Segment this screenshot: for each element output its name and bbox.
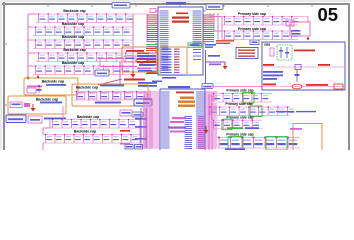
group1 label — [42, 80, 64, 84]
primary bank P2 label — [225, 102, 252, 106]
blue box with red rows — [236, 48, 258, 59]
wire row5 to group1 — [37, 75, 39, 79]
svg-text:Primary side cap: Primary side cap — [238, 12, 266, 16]
U2 left bus wires — [144, 90, 150, 149]
VR5 diodes — [279, 47, 289, 58]
primary cap bank P3 — [211, 119, 262, 128]
VR5 panel — [262, 42, 345, 90]
border zone ticks — [5, 5, 313, 106]
net label right of U1 — [205, 44, 216, 48]
backside cap bank row 5 label — [62, 61, 84, 65]
IC U1 part value text — [172, 13, 189, 23]
group3 net center — [95, 102, 121, 104]
U2 part value text — [176, 92, 195, 107]
P3 green box — [222, 119, 232, 130]
U2 right pin names — [196, 92, 205, 149]
IC U1 right pin names — [193, 11, 206, 47]
wire bank6-7 left — [43, 120, 50, 151]
U2 inner pin column — [185, 116, 205, 149]
svg-text:Backside cap: Backside cap — [36, 98, 58, 102]
wire rail to connector — [298, 17, 309, 40]
red note below box — [124, 79, 145, 81]
backside cap bank row 3 label — [62, 35, 84, 39]
group3 net right — [100, 85, 124, 87]
red ellipse callout — [136, 58, 148, 63]
P1 green box — [243, 93, 254, 104]
svg-text:Backside cap: Backside cap — [42, 80, 64, 84]
backside cap bank row 2 label — [62, 22, 84, 26]
IC U2 refdes label — [168, 86, 190, 88]
group1 parts — [27, 85, 42, 93]
red note in box — [126, 50, 144, 52]
VR5 wire 1 — [263, 64, 344, 70]
VR5 red note — [294, 50, 315, 52]
wire into box — [100, 59, 137, 67]
U1 orange box pin rows — [162, 49, 180, 74]
wire U1 to south — [205, 50, 207, 88]
hierarchical block tab A — [112, 3, 130, 9]
primary bank row 2 label — [238, 27, 266, 31]
U2 purple text — [168, 127, 186, 133]
wire bank right join — [139, 120, 141, 144]
svg-text:Backside cap: Backside cap — [62, 61, 84, 65]
red callout line — [98, 79, 122, 85]
backside cap bank row 6 — [50, 119, 140, 128]
U2 right bus wires — [209, 94, 212, 150]
wire group3 to bank6 — [62, 106, 64, 120]
group2 label — [36, 98, 58, 102]
svg-text:Backside cap: Backside cap — [76, 86, 98, 90]
block tab C — [6, 115, 26, 123]
svg-text:Primary side cap: Primary side cap — [226, 133, 253, 137]
component in box — [124, 56, 136, 62]
small parts below bank7 — [125, 145, 143, 150]
net text below U1 — [152, 77, 176, 82]
wire primary bus left — [209, 94, 212, 151]
IC U1 left pin names — [155, 11, 168, 73]
svg-text:Backside cap: Backside cap — [63, 48, 85, 52]
primary cap bank P1 — [211, 93, 272, 102]
wire right bus — [132, 14, 134, 80]
small part near U1 top — [150, 9, 156, 13]
component D — [28, 116, 42, 123]
IC U1 refdes label — [166, 2, 186, 4]
primary cap bank row 1 — [222, 16, 298, 25]
VR5 resistor — [270, 48, 274, 56]
backside cap bank row 4 — [36, 52, 133, 61]
power arrow P — [204, 126, 209, 134]
wire primary left bus — [210, 13, 222, 40]
U2 left pin names — [161, 92, 170, 149]
VR5 dashed box — [277, 45, 292, 60]
P4 green box 1 — [228, 137, 243, 151]
P2 green box — [250, 106, 262, 117]
U1 lower-left pin wires — [146, 45, 158, 74]
group1 net name — [46, 84, 66, 86]
U2 magenta text — [170, 117, 186, 123]
net names below box — [138, 82, 157, 87]
U1 right pin stubs — [203, 15, 214, 42]
sheet number 05 — [318, 4, 339, 25]
connector component — [286, 20, 310, 36]
svg-text:Primary side cap: Primary side cap — [226, 89, 253, 93]
highlight box backside group 3 — [72, 84, 148, 106]
sheet frame border — [0, 0, 354, 150]
svg-text:Backside cap: Backside cap — [77, 115, 99, 119]
backside cap bank row 2 — [33, 26, 133, 35]
group2 parts — [10, 102, 36, 112]
P4 green box 2 — [266, 137, 287, 151]
backside cap bank row 4 label — [63, 48, 85, 52]
U1 left pin stubs — [147, 14, 158, 42]
small blue box mid-right — [250, 40, 259, 45]
pink note — [290, 128, 302, 130]
svg-text:Primary side cap: Primary side cap — [225, 102, 252, 106]
P3 net label below — [227, 127, 259, 129]
net label E — [44, 118, 66, 120]
highlight box left of U1 — [122, 47, 157, 72]
backside cap bank row 1 label — [63, 9, 85, 13]
wire H to panel — [213, 86, 262, 88]
primary bank P4 label — [226, 133, 253, 137]
power arrow G — [223, 62, 228, 70]
highlight box backside group 2 — [8, 96, 66, 114]
highlight box backside group 1 — [24, 78, 78, 95]
power arrow — [131, 70, 136, 78]
svg-text:Primary side cap: Primary side cap — [238, 27, 266, 31]
wire bank row1 to U1 — [133, 13, 147, 15]
backside bank row 6 label — [77, 115, 99, 119]
block tab K — [132, 112, 143, 117]
net label F — [208, 55, 220, 57]
P4 net label — [225, 148, 245, 150]
VR5 wire 2 — [263, 84, 344, 90]
block tab H — [202, 84, 213, 89]
primary bank P1 label — [226, 89, 253, 93]
VR5 net text — [263, 70, 300, 82]
IC U2 body — [160, 89, 205, 150]
primary bank row 1 label — [238, 12, 266, 16]
svg-text:Backside cap: Backside cap — [74, 129, 96, 133]
middle parts column — [120, 99, 152, 148]
backside bank row 7 label — [74, 129, 96, 133]
U2 right pin stubs — [205, 92, 217, 148]
purple wire J — [119, 62, 121, 85]
U2 left pin stubs — [143, 92, 160, 148]
backside cap bank row 1 — [36, 13, 133, 22]
block tab I — [95, 70, 109, 76]
svg-text:05: 05 — [318, 4, 339, 25]
svg-text:Backside cap: Backside cap — [62, 35, 84, 39]
primary cap bank P2 — [208, 106, 295, 115]
backside cap bank row 3 — [33, 39, 133, 48]
highlight box inside U1 — [160, 47, 187, 76]
primary bank P3 label — [226, 116, 253, 120]
orange box bottom right — [293, 124, 322, 151]
P2 net label right — [276, 111, 316, 112]
group3 label — [76, 86, 98, 90]
primary cap bank row 2 — [222, 30, 298, 39]
VR5 title — [264, 43, 270, 47]
purple branch — [206, 62, 226, 65]
red note rows mid-right — [216, 40, 234, 44]
U1 right sparse pins — [193, 49, 201, 60]
svg-text:Backside cap: Backside cap — [62, 22, 84, 26]
svg-text:VR5: VR5 — [264, 43, 270, 47]
green highlight box PGOOD — [188, 43, 202, 47]
backside cap bank row 5 — [33, 65, 133, 74]
IC U1 body — [158, 7, 203, 75]
dense net text — [137, 55, 156, 69]
group3 power arrow — [139, 98, 144, 107]
primary cap bank P4 — [216, 137, 300, 149]
extra net tangle — [137, 53, 156, 74]
svg-text:Backside cap: Backside cap — [63, 9, 85, 13]
group3 boxed caps — [74, 91, 146, 100]
hierarchical block tab B — [206, 4, 223, 10]
backside cap bank row 7 — [43, 134, 140, 143]
group2 net name — [40, 102, 62, 104]
wire left bus — [27, 14, 36, 79]
